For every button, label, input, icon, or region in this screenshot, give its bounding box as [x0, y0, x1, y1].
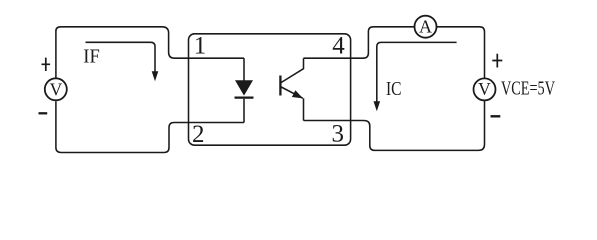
svg-text:IC: IC: [386, 79, 402, 100]
voltage source V2 (collector supply): [474, 78, 496, 100]
svg-text:V: V: [50, 80, 63, 100]
wire: optocoupler pin 2 lead back to V1 negative terminal: [56, 101, 189, 152]
svg-text:V: V: [478, 79, 491, 99]
current arrow IC: [374, 42, 457, 111]
svg-text:2: 2: [192, 121, 205, 148]
wire: pin 4 lead up to ammeter: [304, 27, 415, 58]
voltage source V1 (forward-bias supply): [45, 78, 67, 100]
svg-text:4: 4: [332, 33, 345, 60]
minus polarity mark of V1: [39, 112, 48, 114]
current arrow IF: [86, 42, 159, 81]
LED D1 (emitter diode): [235, 58, 254, 122]
wire: pin 3 lead down and across to V2 negative terminal: [304, 101, 485, 151]
minus polarity mark of V2: [491, 115, 501, 117]
plus polarity mark of V2: [492, 54, 502, 68]
optocoupler package U1: [189, 34, 351, 145]
wire: ammeter to V2 positive terminal: [437, 27, 485, 79]
phototransistor Q1: [280, 58, 303, 120]
svg-text:VCE=5V: VCE=5V: [501, 79, 555, 100]
ammeter A1: [415, 16, 437, 38]
wire: LED cathode to pin 2 lead: [189, 122, 245, 124]
plus polarity mark of V1: [42, 58, 51, 71]
wire: pin 1 lead inside package to LED anode: [189, 57, 245, 59]
svg-text:IF: IF: [83, 45, 100, 67]
svg-text:A: A: [419, 16, 432, 36]
svg-text:3: 3: [331, 121, 344, 148]
wire: V1 positive terminal up and across to optocoupler pin 1 lead: [56, 27, 189, 79]
svg-text:1: 1: [194, 33, 207, 60]
